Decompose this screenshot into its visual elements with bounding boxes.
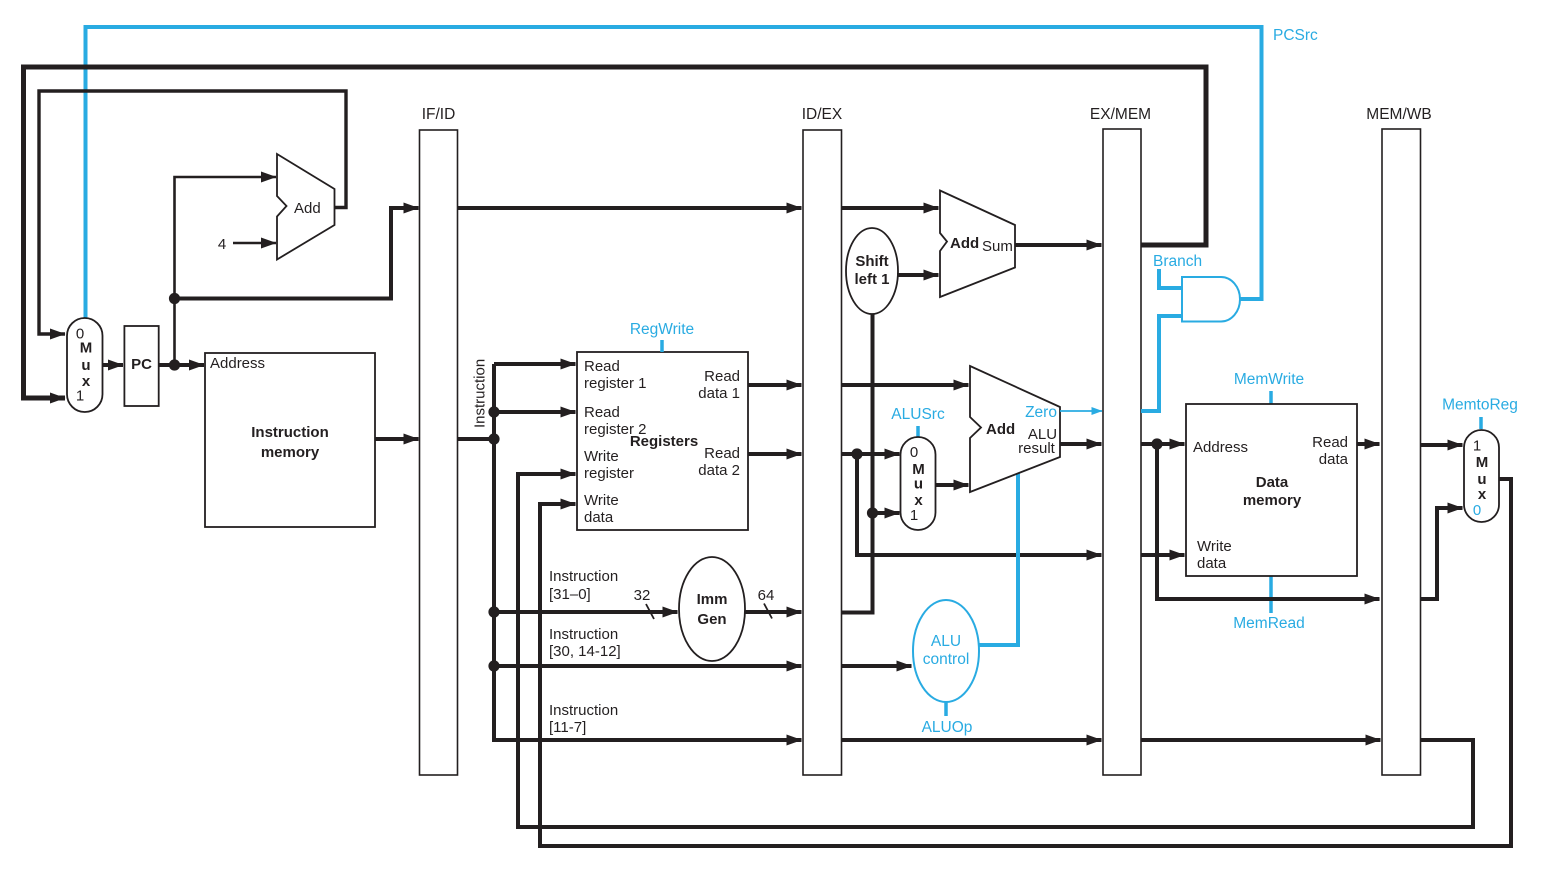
svg-text:64: 64 bbox=[758, 587, 775, 604]
svg-text:Shift: Shift bbox=[855, 253, 888, 270]
junction read data 2 bbox=[851, 448, 862, 459]
wire read data 2 to ID/EX bbox=[748, 452, 802, 456]
svg-text:u: u bbox=[914, 476, 923, 493]
wire instruction memory output to IF/ID bbox=[375, 437, 419, 441]
memory Instruction memory bbox=[205, 353, 375, 527]
wire ALU result EX/MEM to data memory and MEM/WB bbox=[1141, 442, 1185, 446]
svg-text:1: 1 bbox=[76, 388, 84, 405]
wire branch-target loop (EX/MEM Add Sum output back to PC mux input 1) bbox=[24, 67, 1207, 398]
svg-text:MEM/WB: MEM/WB bbox=[1366, 106, 1431, 123]
wire instruction [31-0] to Imm Gen bbox=[494, 610, 678, 614]
svg-text:Read: Read bbox=[704, 445, 740, 462]
control ALU control bbox=[913, 600, 979, 702]
svg-text:u: u bbox=[81, 357, 90, 374]
wire instruction vertical distribution bbox=[494, 364, 802, 740]
svg-text:Address: Address bbox=[210, 355, 265, 372]
svg-text:Read: Read bbox=[1312, 434, 1348, 451]
svg-text:memory: memory bbox=[1243, 492, 1302, 509]
wire Add Sum output to EX/MEM bbox=[1015, 243, 1102, 247]
svg-text:PCSrc: PCSrc bbox=[1273, 27, 1318, 44]
svg-text:Add: Add bbox=[950, 235, 979, 252]
svg-text:Address: Address bbox=[1193, 439, 1248, 456]
svg-text:Registers: Registers bbox=[630, 433, 698, 450]
wire PC value up to Add input bbox=[175, 177, 277, 365]
svg-text:1: 1 bbox=[1473, 438, 1481, 455]
svg-text:Instruction: Instruction bbox=[549, 626, 618, 643]
mux PC-source (0/1) bbox=[67, 318, 103, 412]
wire PC value to Add Sum upper input bbox=[842, 206, 939, 210]
junction immediate bbox=[867, 507, 878, 518]
svg-text:ALUSrc: ALUSrc bbox=[891, 406, 945, 423]
svg-text:EX/MEM: EX/MEM bbox=[1090, 106, 1151, 123]
svg-text:Add: Add bbox=[294, 200, 321, 217]
svg-text:data: data bbox=[1197, 555, 1227, 572]
svg-text:x: x bbox=[1478, 486, 1487, 503]
junction ALU result bbox=[1151, 438, 1162, 449]
svg-text:M: M bbox=[80, 340, 93, 357]
wire read data 1 to ID/EX bbox=[748, 383, 802, 387]
wire read data to MEM/WB bbox=[1357, 442, 1380, 446]
svg-text:data: data bbox=[1319, 451, 1349, 468]
svg-text:Write: Write bbox=[584, 492, 619, 509]
wire PC to instruction memory address bbox=[159, 363, 204, 367]
wire memory read data to write-back mux input 1 bbox=[1421, 443, 1463, 447]
svg-text:Write: Write bbox=[1197, 538, 1232, 555]
memory Data memory bbox=[1186, 404, 1357, 576]
wire ALU control output (blue) bbox=[979, 472, 1018, 645]
wire PC value IF/ID to ID/EX bbox=[458, 206, 802, 210]
svg-text:Instruction: Instruction bbox=[549, 568, 618, 585]
junction PC output bbox=[169, 359, 180, 370]
svg-text:Instruction: Instruction bbox=[472, 359, 489, 428]
svg-text:ALUOp: ALUOp bbox=[922, 719, 973, 736]
svg-text:0: 0 bbox=[1473, 502, 1481, 519]
mux ALUSrc (0/1) bbox=[901, 437, 936, 530]
svg-text:memory: memory bbox=[261, 444, 320, 461]
wire rd field ID/EX to EX/MEM bbox=[842, 738, 1102, 742]
svg-text:IF/ID: IF/ID bbox=[422, 106, 456, 123]
svg-text:left 1: left 1 bbox=[854, 271, 889, 288]
mux write-back MemtoReg (1/0) bbox=[1464, 430, 1499, 522]
wire instruction from IF/ID bbox=[458, 437, 495, 441]
wire PC+4 loop (Add output back to PC mux input 0) bbox=[39, 91, 346, 334]
svg-text:M: M bbox=[1476, 454, 1489, 471]
imm-gen Imm Gen bbox=[679, 557, 745, 661]
svg-text:Read: Read bbox=[584, 404, 620, 421]
wire Zero flag to EX/MEM (blue) bbox=[1060, 410, 1102, 412]
wire 4 to Add bbox=[233, 242, 276, 245]
wire branch control into AND gate (blue) bbox=[1159, 269, 1181, 288]
alu ALU bbox=[970, 366, 1060, 492]
svg-text:data 2: data 2 bbox=[698, 462, 740, 479]
svg-text:control: control bbox=[923, 651, 970, 668]
wire write register number loop from MEM/WB bbox=[518, 474, 1473, 827]
svg-text:Read: Read bbox=[704, 368, 740, 385]
adder Add (PC+4) bbox=[277, 154, 335, 260]
wire instruction [30,14-12] to ID/EX bbox=[494, 664, 802, 668]
svg-text:Zero: Zero bbox=[1025, 404, 1057, 421]
wire to read register 2 bbox=[494, 410, 576, 414]
wire write data EX/MEM to data memory bbox=[1141, 553, 1185, 557]
wire read data 2 to ALUSrc mux and EX/MEM bbox=[842, 454, 1102, 555]
wire Imm Gen output to ID/EX bbox=[745, 610, 802, 614]
svg-text:register 1: register 1 bbox=[584, 375, 647, 392]
wire mux to PC bbox=[103, 363, 124, 367]
svg-text:Add: Add bbox=[986, 421, 1015, 438]
svg-text:MemWrite: MemWrite bbox=[1234, 371, 1304, 388]
wire PCSrc (blue) from AND gate up and back to PC mux select bbox=[86, 27, 1262, 318]
wire write-back data loop to register write data bbox=[540, 479, 1511, 846]
svg-text:result: result bbox=[1018, 440, 1056, 457]
svg-text:ALU: ALU bbox=[931, 633, 961, 650]
svg-text:Branch: Branch bbox=[1153, 253, 1202, 270]
register IF/ID bbox=[420, 106, 458, 775]
svg-text:[31–0]: [31–0] bbox=[549, 586, 591, 603]
svg-text:Imm: Imm bbox=[697, 591, 728, 608]
svg-text:[11-7]: [11-7] bbox=[549, 719, 586, 736]
register file Registers bbox=[577, 352, 748, 530]
svg-text:data 1: data 1 bbox=[698, 385, 740, 402]
svg-text:4: 4 bbox=[218, 236, 226, 253]
svg-text:Data: Data bbox=[1256, 474, 1289, 491]
svg-text:data: data bbox=[584, 509, 614, 526]
junction instruction node bbox=[488, 406, 499, 417]
svg-text:Instruction: Instruction bbox=[549, 702, 618, 719]
control ALUOp bbox=[944, 702, 948, 716]
svg-text:MemRead: MemRead bbox=[1233, 615, 1305, 632]
register ID/EX bbox=[802, 106, 843, 775]
wire immediate from ID/EX up to shift and mux bbox=[842, 314, 873, 613]
wire ALU result to EX/MEM bbox=[1060, 442, 1102, 446]
adder Add Sum (branch target) bbox=[940, 191, 1015, 298]
svg-text:1: 1 bbox=[910, 507, 918, 524]
wire to read register 1 bbox=[494, 362, 576, 366]
wire ALU result bypass to write-back mux input 0 bbox=[1421, 508, 1463, 599]
svg-text:ID/EX: ID/EX bbox=[802, 106, 843, 123]
svg-text:register: register bbox=[584, 465, 634, 482]
svg-text:0: 0 bbox=[910, 444, 918, 461]
svg-text:Write: Write bbox=[584, 448, 619, 465]
svg-text:32: 32 bbox=[634, 587, 651, 604]
wire funct field to ALU control bbox=[842, 664, 912, 668]
wire Zero from EX/MEM into AND gate (blue) bbox=[1141, 316, 1181, 411]
wire shift left output to Add Sum lower input bbox=[897, 273, 939, 277]
svg-text:Gen: Gen bbox=[697, 611, 726, 628]
wire read data 1 to ALU bbox=[842, 383, 969, 387]
svg-text:[30, 14-12]: [30, 14-12] bbox=[549, 643, 621, 660]
svg-text:Sum: Sum bbox=[982, 238, 1013, 255]
register EX/MEM bbox=[1090, 106, 1151, 775]
svg-text:RegWrite: RegWrite bbox=[630, 321, 694, 338]
and-gate branch AND bbox=[1182, 277, 1240, 322]
wire PC value to IF/ID bbox=[175, 208, 419, 299]
register PC bbox=[124, 326, 158, 406]
svg-text:Read: Read bbox=[584, 358, 620, 375]
wire ALUSrc mux output to ALU bbox=[936, 483, 969, 487]
shifter Shift left 1 bbox=[846, 228, 898, 314]
register MEM/WB bbox=[1366, 106, 1431, 775]
svg-text:MemtoReg: MemtoReg bbox=[1442, 397, 1518, 414]
control MemRead bbox=[1269, 576, 1273, 613]
svg-text:PC: PC bbox=[131, 356, 152, 373]
wire rd field EX/MEM to MEM/WB bbox=[1141, 738, 1381, 742]
junction PC branch bbox=[169, 293, 180, 304]
svg-text:Instruction: Instruction bbox=[251, 424, 329, 441]
